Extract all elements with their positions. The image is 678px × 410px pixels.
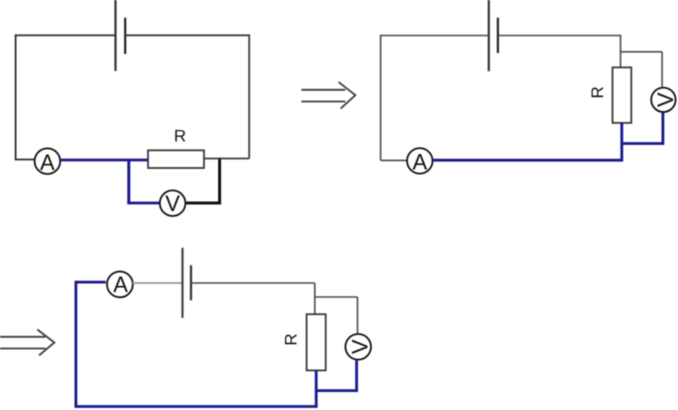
voltmeter V (circuit 2) [651, 88, 678, 112]
svg-text:V: V [348, 339, 373, 354]
arrow2 head [37, 330, 54, 356]
ammeter A (circuit 3) [107, 272, 133, 298]
wire: C1 top-left horizontal [16, 34, 115, 36]
wire: C1 blue vertical voltmeter branch [127, 160, 130, 203]
wire: C3 branch to voltmeter horizontal [315, 296, 358, 298]
battery B3 long plate [181, 248, 183, 318]
wire: C1 blue from ammeter to resistor [61, 159, 148, 162]
svg-text:A: A [40, 150, 55, 175]
wire: C2 blue voltmeter bottom vertical [662, 113, 665, 145]
wire: C1 blue horizontal to voltmeter [127, 202, 159, 205]
wire: C1 black from voltmeter up to resistor right node [186, 158, 219, 204]
svg-text:R: R [282, 333, 301, 345]
wire: C2 blue below resistor [620, 123, 623, 161]
wire: C3 blue below resistor [315, 370, 318, 406]
wire: C3 voltmeter top vertical [357, 297, 359, 333]
arrow2 shaft top line [0, 336, 45, 338]
ammeter A (circuit 1) [35, 148, 61, 174]
arrow shaft top line [301, 89, 345, 91]
wire: C2 bottom-left to ammeter [381, 159, 407, 161]
svg-text:A: A [113, 272, 128, 297]
wire: C3 light gray ammeter to battery [132, 282, 181, 284]
wire: C1 right vertical [248, 34, 250, 158]
wire: C2 right vertical from top to resistor [620, 35, 622, 68]
wire: C1 left vertical [15, 34, 17, 159]
battery B1 long plate [114, 0, 116, 71]
wire: C3 blue bottom horizontal [75, 405, 318, 408]
wire: C3 blue top-left to ammeter [76, 281, 106, 284]
battery B1 short plate [124, 18, 126, 54]
svg-text:R: R [588, 86, 607, 98]
wire: C2 left vertical [380, 35, 382, 161]
svg-text:V: V [165, 191, 180, 216]
wire: C2 voltmeter top vertical [661, 52, 663, 87]
wire: C2 blue bottom from ammeter to resistor branch [433, 159, 623, 162]
resistor R (circuit 1) [148, 150, 204, 168]
wire: C3 battery to right corner [192, 282, 315, 284]
wire: C2 top-left horizontal [381, 35, 488, 37]
battery B2 short plate [497, 18, 499, 53]
svg-text:A: A [412, 149, 427, 174]
wire: C2 branch to voltmeter horizontal [621, 51, 663, 53]
voltmeter V (circuit 1) [160, 190, 186, 216]
wire: C1 bottom-left to ammeter [15, 159, 34, 161]
wire: C3 blue voltmeter bottom vertical [355, 360, 358, 392]
wire: C1 resistor right to right vertical [204, 158, 249, 160]
battery B2 long plate [488, 0, 490, 71]
battery B3 short plate [190, 265, 192, 300]
svg-text:R: R [174, 126, 186, 145]
resistor R (circuit 3) [307, 314, 326, 370]
wire: C2 top-right horizontal [499, 35, 621, 37]
wire: C3 blue branch to voltmeter [316, 389, 356, 392]
voltmeter V (circuit 3) [345, 334, 372, 360]
arrow shaft bottom line [301, 101, 345, 103]
arrow2 shaft bottom line [0, 348, 45, 350]
svg-text:V: V [653, 92, 678, 107]
wire: C1 top-right horizontal [126, 34, 249, 36]
ammeter A (circuit 2) [407, 148, 433, 174]
arrow head [339, 82, 356, 109]
wire: C2 blue branch to voltmeter [622, 142, 663, 145]
resistor R (circuit 2) [613, 67, 632, 123]
wire: C3 blue left vertical [75, 281, 78, 407]
wire: C3 right vertical to resistor [314, 283, 316, 314]
